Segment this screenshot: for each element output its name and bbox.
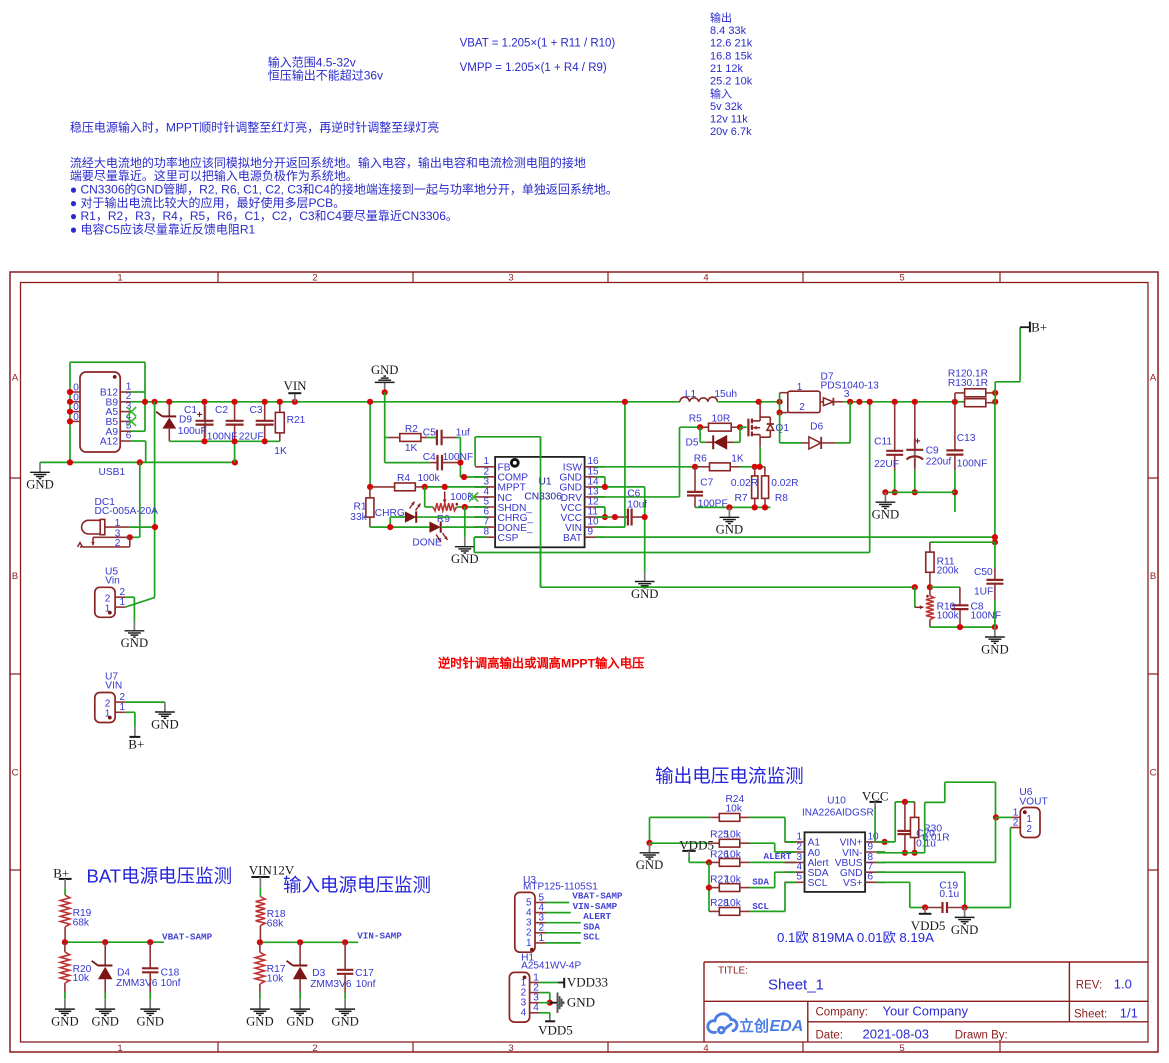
svg-text:10k: 10k: [267, 973, 284, 984]
svg-text:2: 2: [115, 538, 121, 549]
svg-text:1K: 1K: [405, 443, 418, 454]
svg-text:● CN3306的GND管脚，R2, R6, C1, C2,: ● CN3306的GND管脚，R2, R6, C1, C2, C3和C4的接地端…: [70, 182, 618, 197]
svg-text:100NF: 100NF: [957, 458, 988, 469]
svg-text:立创: 立创: [739, 1017, 769, 1035]
svg-text:GND: GND: [636, 858, 664, 872]
svg-text:Date:: Date:: [816, 1030, 844, 1042]
svg-text:输入电源电压监测: 输入电源电压监测: [283, 875, 431, 896]
svg-text:100uF: 100uF: [178, 426, 207, 437]
svg-text:● 对于输出电流比较大的应用，最好使用多层PCB。: ● 对于输出电流比较大的应用，最好使用多层PCB。: [70, 195, 345, 210]
svg-text:端要尽量靠近。这里可以把输入电源负极作为系统地。: 端要尽量靠近。这里可以把输入电源负极作为系统地。: [70, 168, 358, 183]
svg-text:Company:: Company:: [816, 1006, 868, 1018]
svg-text:D9: D9: [179, 415, 192, 426]
svg-text:U10: U10: [827, 795, 846, 806]
svg-text:1: 1: [120, 597, 126, 608]
svg-text:1: 1: [105, 709, 111, 720]
svg-text:1/1: 1/1: [1120, 1005, 1138, 1020]
svg-text:12.6 21k: 12.6 21k: [710, 38, 753, 50]
svg-text:3: 3: [508, 1043, 513, 1054]
svg-text:10nf: 10nf: [356, 979, 376, 990]
svg-text:SCL: SCL: [583, 932, 600, 943]
svg-text:10R: 10R: [712, 414, 731, 425]
svg-text:GND: GND: [286, 1015, 314, 1029]
svg-text:Your Company: Your Company: [883, 1003, 969, 1018]
svg-text:16.8 15k: 16.8 15k: [710, 50, 753, 62]
svg-text:0.1R: 0.1R: [967, 378, 989, 389]
svg-text:15uh: 15uh: [714, 389, 737, 400]
svg-text:4: 4: [533, 1003, 539, 1014]
svg-text:2: 2: [312, 1043, 317, 1054]
svg-text:9: 9: [868, 841, 874, 852]
svg-text:5: 5: [796, 872, 802, 883]
svg-text:GND: GND: [246, 1015, 274, 1029]
svg-text:C: C: [12, 768, 19, 779]
svg-text:C: C: [1150, 768, 1157, 779]
svg-text:输出电压电流监测: 输出电压电流监测: [655, 766, 804, 787]
svg-text:INA226AIDGSR: INA226AIDGSR: [802, 808, 874, 819]
svg-text:C3: C3: [250, 405, 263, 416]
svg-text:USB1: USB1: [99, 467, 126, 478]
svg-text:0.1u: 0.1u: [916, 839, 936, 850]
svg-text:DC-005A-20A: DC-005A-20A: [95, 506, 159, 517]
svg-text:1: 1: [117, 273, 122, 284]
svg-text:A12: A12: [100, 437, 118, 448]
svg-text:R13: R13: [948, 378, 967, 389]
svg-text:输入范围4.5-32v: 输入范围4.5-32v: [268, 55, 356, 70]
svg-text:R21: R21: [287, 415, 306, 426]
svg-text:VMPP = 1.205×(1 + R4 / R9): VMPP = 1.205×(1 + R4 / R9): [460, 62, 607, 74]
svg-text:流经大电流地的功率地应该同模拟地分开返回系统地。输入电容，输: 流经大电流地的功率地应该同模拟地分开返回系统地。输入电容，输出电容和电流检测电阻…: [70, 155, 586, 170]
svg-text:C7: C7: [700, 478, 713, 489]
svg-text:1.0: 1.0: [1114, 976, 1132, 991]
svg-text:GND: GND: [567, 995, 595, 1010]
svg-text:100NF: 100NF: [207, 431, 238, 442]
svg-text:VDD33: VDD33: [567, 974, 608, 989]
svg-text:R7: R7: [735, 493, 748, 504]
svg-text:D6: D6: [810, 421, 823, 432]
svg-text:100NF: 100NF: [971, 611, 1002, 622]
svg-text:1uf: 1uf: [456, 428, 470, 439]
svg-text:GND: GND: [631, 587, 659, 601]
svg-text:R5: R5: [689, 414, 702, 425]
svg-text:SCL: SCL: [752, 901, 769, 912]
svg-text:C5: C5: [423, 428, 436, 439]
svg-text:100k: 100k: [418, 473, 441, 484]
svg-text:A0: A0: [808, 848, 821, 859]
svg-text:EDA: EDA: [770, 1018, 804, 1035]
svg-text:GND: GND: [981, 642, 1009, 656]
svg-text:R8: R8: [775, 493, 788, 504]
svg-text:C4: C4: [423, 452, 436, 463]
svg-text:22UF: 22UF: [239, 431, 264, 442]
svg-text:C50: C50: [974, 567, 993, 578]
svg-text:GND: GND: [121, 636, 149, 650]
svg-text:SDA: SDA: [752, 877, 769, 888]
svg-text:GND: GND: [136, 1015, 164, 1029]
svg-text:20v 6.7k: 20v 6.7k: [710, 126, 752, 138]
svg-text:VIN12V: VIN12V: [249, 863, 295, 878]
svg-text:0: 0: [73, 412, 79, 423]
svg-text:C11: C11: [874, 437, 892, 448]
svg-text:8.4 33k: 8.4 33k: [710, 25, 747, 37]
svg-text:5: 5: [899, 273, 904, 284]
svg-text:VDD5: VDD5: [911, 918, 946, 933]
svg-text:5v 32k: 5v 32k: [710, 101, 743, 113]
svg-text:● R1，R2，R3，R4，R5，R6，C1，C2，C3和C: ● R1，R2，R3，R4，R5，R6，C1，C2，C3和C4要尽量靠近CN33…: [70, 209, 458, 223]
svg-text:L1: L1: [685, 389, 697, 400]
svg-text:VOUT: VOUT: [1019, 797, 1047, 808]
svg-text:Drawn By:: Drawn By:: [955, 1030, 1008, 1042]
svg-text:稳压电源输入时，MPPT顺时针调整至红灯亮，再逆时针调整至绿: 稳压电源输入时，MPPT顺时针调整至红灯亮，再逆时针调整至绿灯亮: [70, 120, 439, 135]
svg-text:1: 1: [797, 382, 803, 393]
svg-text:22UF: 22UF: [874, 459, 899, 470]
svg-text:200k: 200k: [937, 565, 960, 576]
svg-text:输出: 输出: [710, 10, 732, 24]
svg-text:1K: 1K: [274, 446, 287, 457]
svg-text:VIN: VIN: [283, 378, 307, 393]
svg-text:TITLE:: TITLE:: [718, 966, 748, 977]
svg-text:A: A: [12, 373, 19, 384]
svg-text:2: 2: [1026, 824, 1032, 835]
svg-text:2: 2: [796, 841, 802, 852]
svg-text:6: 6: [126, 430, 132, 441]
svg-text:A: A: [1150, 373, 1157, 384]
svg-text:68k: 68k: [267, 919, 284, 930]
svg-text:B+: B+: [1031, 319, 1047, 334]
svg-text:2: 2: [312, 273, 317, 284]
svg-text:SCL: SCL: [808, 878, 828, 889]
svg-text:68k: 68k: [73, 918, 90, 929]
svg-text:R4: R4: [397, 473, 410, 484]
svg-text:REV:: REV:: [1076, 979, 1102, 991]
svg-text:D3: D3: [312, 968, 325, 979]
svg-text:VDD5: VDD5: [538, 1023, 573, 1038]
svg-text:C2: C2: [215, 405, 228, 416]
svg-text:B: B: [1150, 571, 1156, 582]
svg-text:B+: B+: [128, 736, 144, 751]
svg-text:6: 6: [868, 872, 874, 883]
svg-text:VBAT = 1.205×(1 + R11 / R10): VBAT = 1.205×(1 + R11 / R10): [460, 38, 616, 50]
svg-text:GND: GND: [451, 552, 479, 566]
svg-text:VBAT-SAMP: VBAT-SAMP: [572, 890, 623, 901]
svg-text:CSP: CSP: [498, 533, 519, 544]
svg-text:GND: GND: [331, 1015, 359, 1029]
svg-text:21 12k: 21 12k: [710, 63, 744, 75]
svg-text:1: 1: [117, 1043, 122, 1054]
svg-text:R1: R1: [354, 501, 367, 512]
svg-text:R2: R2: [405, 424, 418, 435]
svg-text:+: +: [915, 436, 921, 447]
svg-text:Vin: Vin: [105, 576, 120, 587]
svg-text:4: 4: [521, 1008, 527, 1019]
svg-text:33k: 33k: [350, 512, 367, 523]
svg-text:GND: GND: [371, 363, 399, 377]
svg-text:U1: U1: [539, 476, 552, 487]
svg-text:4: 4: [703, 1043, 708, 1054]
svg-text:A2541WV-4P: A2541WV-4P: [521, 961, 581, 972]
svg-text:2021-08-03: 2021-08-03: [863, 1027, 930, 1042]
svg-text:CN3306: CN3306: [524, 492, 562, 503]
svg-text:12v 11k: 12v 11k: [710, 114, 748, 126]
svg-text:BAT: BAT: [563, 533, 582, 544]
svg-text:10uf: 10uf: [627, 500, 647, 511]
svg-text:Sheet_1: Sheet_1: [768, 977, 824, 994]
svg-text:VIN-: VIN-: [842, 848, 862, 859]
svg-text:C9: C9: [926, 446, 939, 457]
svg-text:1UF: 1UF: [974, 587, 993, 598]
svg-text:100k: 100k: [937, 611, 960, 622]
svg-text:VBAT-SAMP: VBAT-SAMP: [162, 931, 213, 942]
svg-text:B: B: [12, 571, 18, 582]
svg-text:3: 3: [844, 389, 850, 400]
svg-text:1: 1: [105, 604, 111, 615]
svg-text:GND: GND: [872, 508, 900, 522]
svg-text:C6: C6: [627, 489, 640, 500]
svg-text:3: 3: [508, 273, 513, 284]
svg-text:GND: GND: [151, 717, 179, 731]
svg-text:VIN-SAMP: VIN-SAMP: [357, 931, 402, 942]
svg-text:1K: 1K: [731, 454, 744, 465]
svg-text:10k: 10k: [73, 973, 90, 984]
svg-text:恒压输出不能超过36v: 恒压输出不能超过36v: [268, 68, 383, 83]
svg-text:2: 2: [1013, 817, 1019, 828]
svg-text:0.1u: 0.1u: [939, 889, 959, 900]
svg-text:4: 4: [703, 273, 708, 284]
svg-text:● 电容C5应该尽量靠近反馈电阻R1: ● 电容C5应该尽量靠近反馈电阻R1: [70, 222, 256, 237]
svg-text:+: +: [197, 410, 203, 421]
svg-text:GND: GND: [951, 923, 979, 937]
svg-text:1: 1: [120, 702, 126, 713]
svg-text:VIN: VIN: [105, 681, 122, 692]
svg-text:Q1: Q1: [775, 423, 789, 434]
svg-text:PDS1040-13: PDS1040-13: [821, 381, 880, 392]
svg-text:GND: GND: [91, 1015, 119, 1029]
svg-text:5: 5: [899, 1043, 904, 1054]
svg-text:DONE: DONE: [412, 538, 442, 549]
svg-text:CHRG: CHRG: [375, 508, 405, 519]
svg-text:GND: GND: [51, 1015, 79, 1029]
svg-text:ZMM3V6: ZMM3V6: [116, 978, 158, 989]
svg-text:0.02R: 0.02R: [771, 478, 798, 489]
svg-text:Sheet:: Sheet:: [1074, 1008, 1107, 1020]
svg-text:1: 1: [526, 938, 532, 949]
svg-text:220uf: 220uf: [926, 456, 952, 467]
svg-text:1: 1: [539, 933, 545, 944]
svg-text:100NF: 100NF: [443, 452, 474, 463]
svg-text:R6: R6: [694, 454, 707, 465]
svg-text:逆时针调高输出或调高MPPT输入电压: 逆时针调高输出或调高MPPT输入电压: [438, 656, 644, 671]
svg-text:输入: 输入: [710, 86, 732, 100]
svg-text:ALERT: ALERT: [583, 911, 611, 922]
svg-text:C17: C17: [355, 968, 374, 979]
svg-text:8: 8: [483, 527, 489, 538]
svg-text:GND: GND: [716, 523, 744, 537]
svg-text:25.2 10k: 25.2 10k: [710, 76, 753, 88]
svg-text:R9: R9: [437, 514, 450, 525]
svg-text:2: 2: [799, 402, 805, 413]
svg-text:VS+: VS+: [843, 878, 863, 889]
svg-text:GND: GND: [26, 478, 54, 492]
svg-text:C13: C13: [957, 433, 976, 444]
svg-text:0.02R: 0.02R: [731, 478, 758, 489]
svg-text:BAT电源电压监测: BAT电源电压监测: [87, 866, 233, 887]
svg-text:9: 9: [588, 527, 594, 538]
svg-text:10nf: 10nf: [161, 978, 181, 989]
svg-text:D5: D5: [686, 437, 699, 448]
